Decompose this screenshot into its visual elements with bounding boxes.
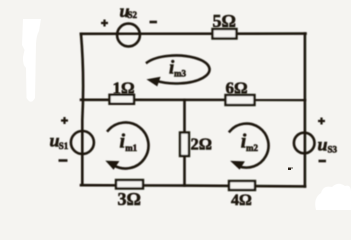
- resistor 3ohm: [116, 180, 143, 189]
- voltage source US3: [294, 133, 315, 154]
- svg-text:S2: S2: [128, 10, 138, 20]
- wire center vertical: [183, 100, 186, 186]
- svg-text:m2: m2: [246, 143, 258, 153]
- wire middle horizontal: [81, 99, 305, 102]
- minus sign of US1: [59, 159, 68, 162]
- mesh current arrow im3: [147, 55, 210, 83]
- svg-text:m1: m1: [125, 143, 137, 153]
- wire right vertical: [304, 34, 307, 187]
- resistor 5ohm: [213, 29, 237, 39]
- resistor 4ohm: [229, 181, 255, 190]
- svg-text:1Ω: 1Ω: [113, 79, 135, 98]
- wire left vertical: [81, 34, 83, 185]
- voltage source US1: [71, 131, 94, 154]
- plus sign of US3: [318, 118, 325, 125]
- wire bottom: [81, 185, 305, 186]
- voltage source US2: [117, 24, 140, 47]
- svg-text:2Ω: 2Ω: [191, 135, 212, 154]
- resistor 1ohm: [110, 95, 135, 104]
- svg-text:3Ω: 3Ω: [118, 189, 141, 209]
- svg-text:6Ω: 6Ω: [226, 79, 248, 98]
- svg-text:4Ω: 4Ω: [231, 192, 252, 209]
- plus sign of US2: [101, 20, 108, 27]
- svg-text:m3: m3: [174, 69, 186, 79]
- mesh current arrow im2: [230, 124, 269, 168]
- svg-text:S1: S1: [59, 141, 69, 151]
- plus sign of US1: [61, 117, 68, 124]
- wire top (node between uS2 and 5ohm): [81, 32, 306, 35]
- svg-text:S3: S3: [328, 145, 338, 155]
- resistor 6ohm: [226, 95, 255, 105]
- mesh current arrow im1: [108, 123, 149, 169]
- minus sign of US3: [319, 160, 327, 163]
- svg-text:5Ω: 5Ω: [213, 11, 236, 31]
- resistor 2ohm: [180, 133, 189, 157]
- svg-text:u: u: [318, 135, 328, 155]
- minus sign of US2: [150, 21, 158, 24]
